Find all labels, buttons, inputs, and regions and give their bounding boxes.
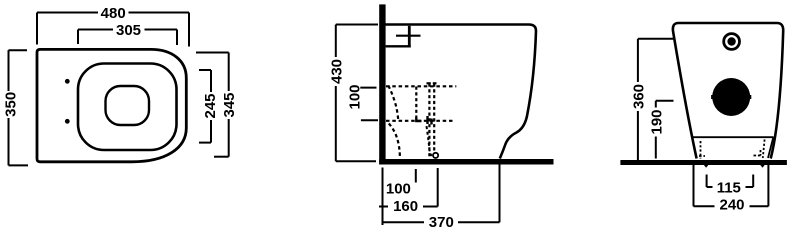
- dimension 100 (drain spacing, side): [360, 88, 378, 121]
- right fixing step dash: [754, 155, 761, 157]
- hidden pedestal rear lower curve (dashed): [389, 124, 400, 157]
- floor outlet circle: [433, 153, 438, 158]
- drain hole (rear): [712, 78, 750, 116]
- dimension 480 (overall width): [37, 13, 189, 47]
- svg-text:480: 480: [101, 5, 126, 22]
- dimension 240 (base width): [694, 162, 769, 206]
- hidden vertical outlet left (dashed): [415, 87, 417, 120]
- bottom extension line at 100: [415, 169, 417, 183]
- water inlet boss (rear): [724, 34, 740, 50]
- water inlet box bottom: [386, 45, 411, 47]
- rear body outline: [673, 23, 783, 159]
- bowl opening (top view): [106, 86, 150, 125]
- dimension 360 (inlet height): [638, 39, 674, 161]
- hidden drain upper line (dashed): [386, 85, 456, 87]
- bottom extension line at 370: [499, 165, 501, 223]
- outlet junction mark: [428, 116, 432, 125]
- left fixing step dash: [699, 155, 705, 157]
- svg-text:305: 305: [116, 22, 141, 39]
- hidden outlet pipe wall a (dashed): [428, 84, 430, 158]
- floor (side view): [379, 159, 553, 165]
- svg-text:245: 245: [202, 93, 219, 118]
- dimension 350 (overall depth, left): [9, 50, 29, 165]
- water inlet cross line: [396, 35, 421, 37]
- dimension 430 (height to inlet): [336, 25, 378, 162]
- outlet elbow at lower junction: [416, 118, 421, 122]
- right fixing marker below floor: [760, 165, 765, 168]
- svg-text:160: 160: [393, 198, 418, 215]
- water inlet hole (rear): [727, 37, 735, 45]
- dimension 370 line: [383, 221, 500, 223]
- svg-text:100: 100: [386, 181, 411, 198]
- dimension 115 (fixing centres): [707, 175, 754, 188]
- svg-text:370: 370: [429, 214, 454, 231]
- dimension 160 line: [379, 206, 438, 208]
- svg-text:190: 190: [648, 109, 665, 134]
- svg-text:345: 345: [221, 92, 238, 117]
- hinge hole upper: [65, 79, 70, 84]
- pan body outline (top view): [37, 49, 186, 161]
- hidden outlet curve to floor (dashed): [427, 126, 432, 156]
- drain side tick right: [750, 95, 752, 99]
- floor (rear view): [620, 160, 787, 165]
- plinth recess line: [692, 136, 774, 138]
- svg-text:360: 360: [630, 84, 647, 109]
- hidden drain lower line (dashed): [386, 120, 455, 122]
- dimension 190 (drain height): [656, 101, 674, 159]
- left fixing hole (dashed): [700, 141, 702, 159]
- dimension 305 (seat width): [78, 30, 177, 46]
- svg-text:350: 350: [2, 92, 19, 117]
- left fixing marker below floor: [704, 165, 709, 168]
- hidden trap rear curve (dashed): [388, 86, 398, 121]
- water inlet pipe vertical: [408, 26, 411, 48]
- svg-text:115: 115: [717, 180, 741, 197]
- svg-text:100: 100: [346, 84, 363, 109]
- bottom extension line at 160: [437, 168, 439, 207]
- svg-text:430: 430: [328, 59, 345, 84]
- right fixing corner dash: [760, 150, 762, 156]
- hinge hole lower: [65, 119, 70, 124]
- seat ring (top view): [78, 64, 177, 151]
- drain side tick left: [711, 95, 713, 99]
- right fixing hole (dashed): [763, 140, 765, 159]
- hidden outlet pipe wall b (dashed): [433, 84, 435, 158]
- pan front profile (side view): [500, 31, 536, 159]
- bottom extension line at wall: [382, 168, 384, 226]
- wall: [379, 4, 385, 164]
- outlet spigot top serif left: [427, 82, 431, 84]
- outlet spigot top serif right: [433, 82, 437, 84]
- dimension 345 (seat depth, right outer): [196, 53, 229, 157]
- dimension 245 (bowl depth, right inner): [199, 70, 211, 143]
- plinth inner right slant: [768, 137, 773, 158]
- pan top edge (side view): [385, 25, 536, 32]
- svg-text:240: 240: [719, 197, 744, 214]
